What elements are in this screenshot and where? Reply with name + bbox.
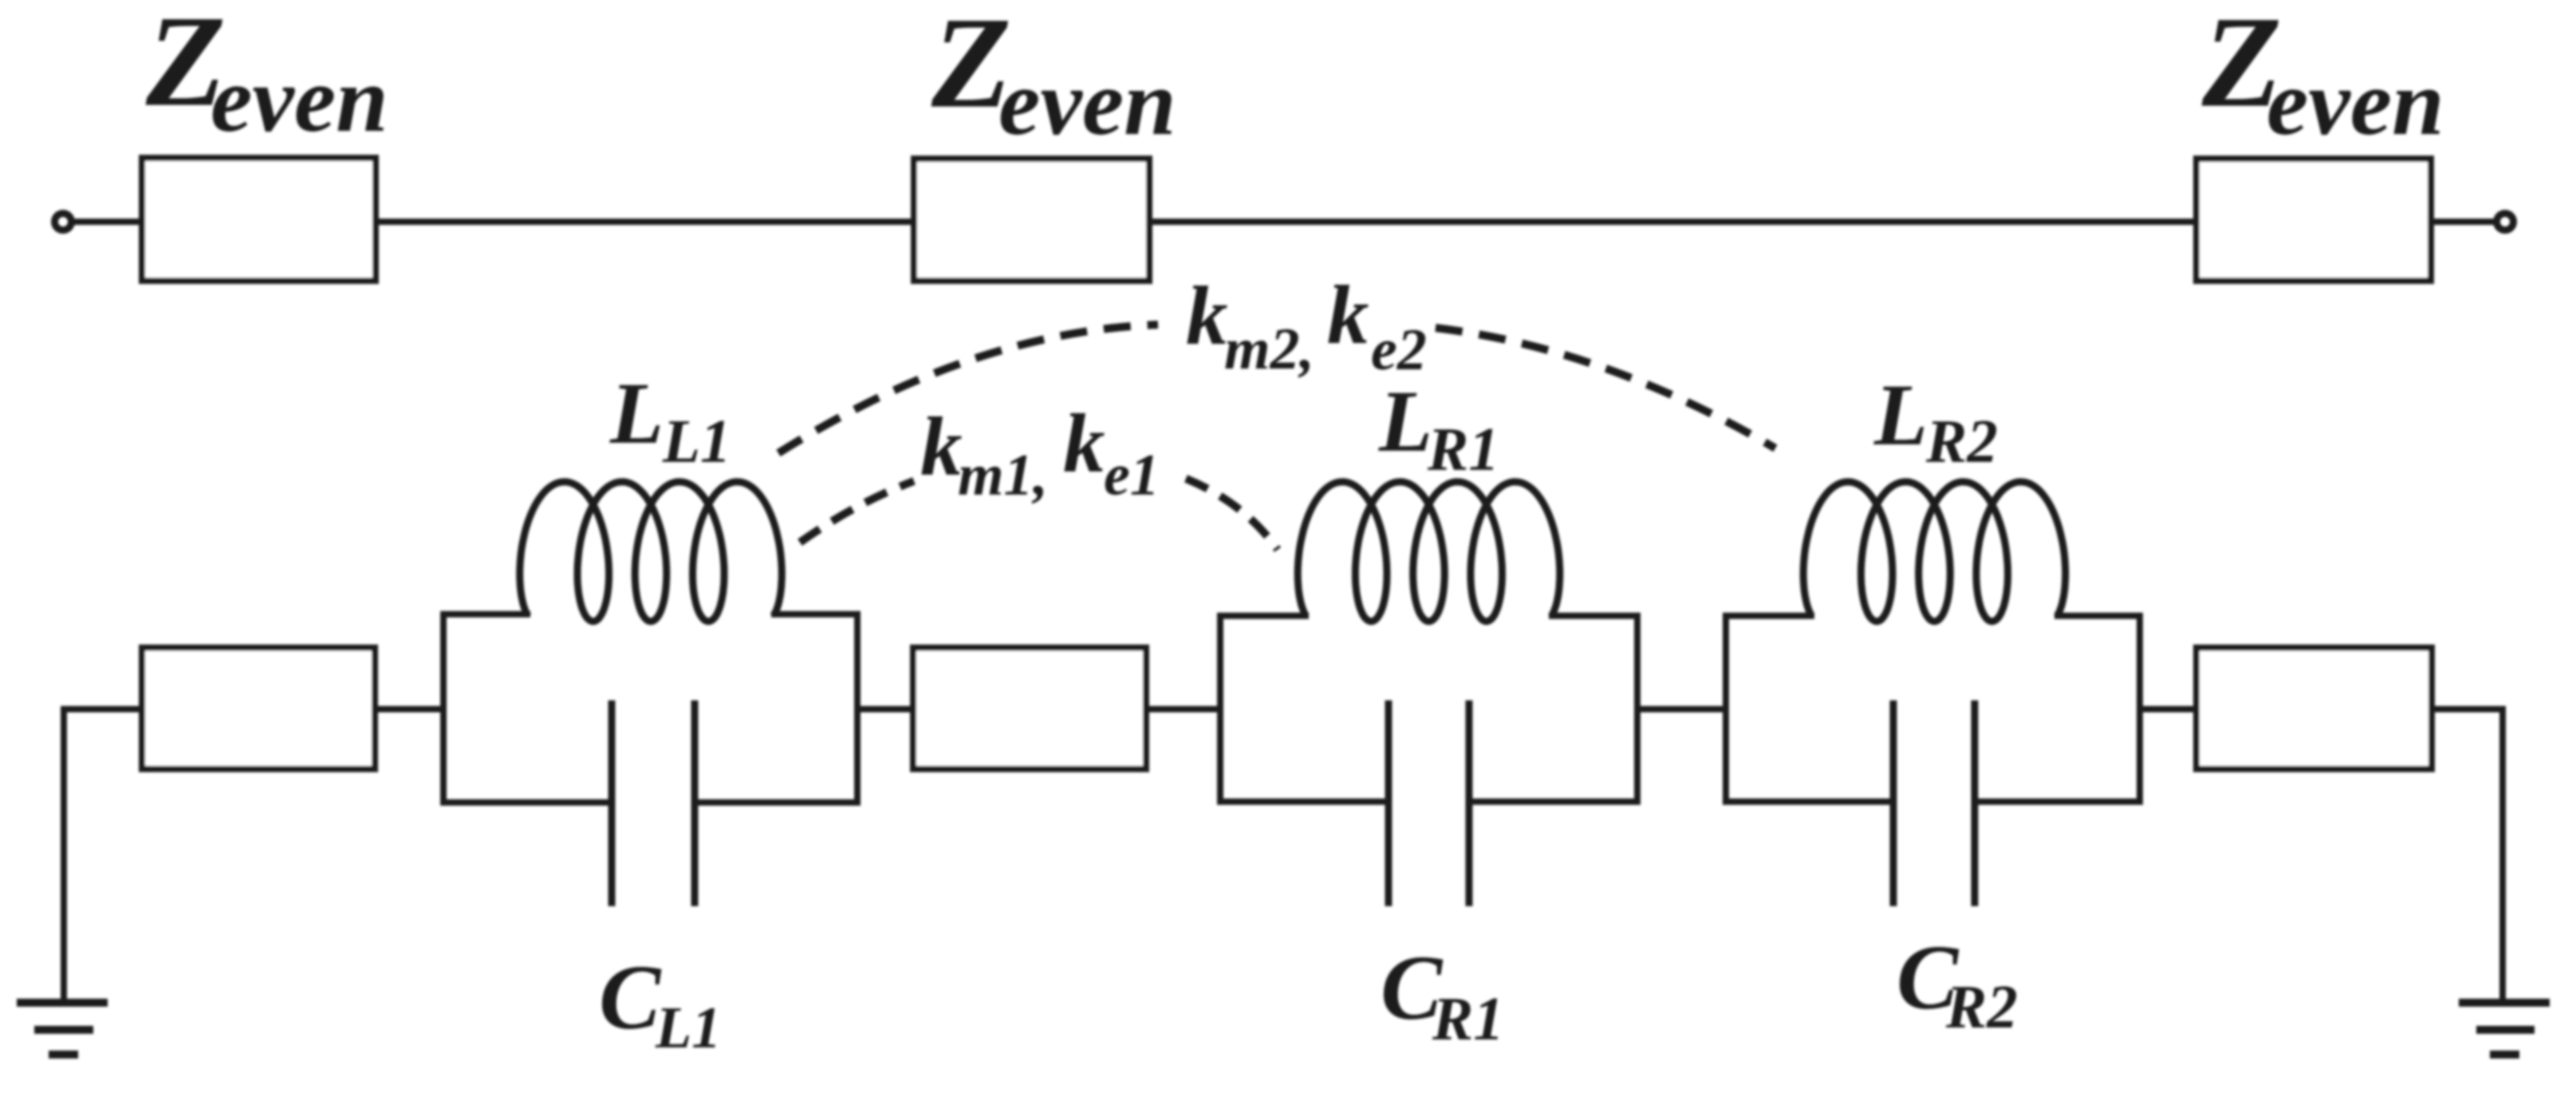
- wire: [375, 706, 443, 712]
- capacitor plates C_L1: [609, 700, 616, 906]
- inductor coil L_L1: [520, 482, 782, 621]
- wire: [2431, 219, 2494, 225]
- transmission line Z_even (left box): [142, 158, 376, 281]
- transmission line Z_even (middle box): [914, 159, 1149, 281]
- resonator box 2 (L_R1/C_R1) right outline: [1469, 616, 1637, 802]
- wire: [1637, 706, 1726, 712]
- ground (left): [17, 1003, 108, 1055]
- inductor coil L_R2: [1803, 482, 2066, 621]
- resonator box 3 (L_R2/C_R2) left outline: [1726, 616, 1893, 802]
- resonator box 1 (L_L1/C_L1) right outline: [695, 614, 857, 802]
- admittance inverter box (bottom left): [142, 648, 375, 769]
- port P2 (right terminal): [2497, 214, 2514, 231]
- coupling k_m2,k_e2 dashed arc (left part): [778, 325, 1158, 453]
- inductor coil L_R1: [1298, 482, 1560, 621]
- wire: [376, 219, 914, 225]
- transmission line Z_even (right box): [2196, 159, 2431, 281]
- capacitor plates C_R2: [1890, 700, 1897, 906]
- resonator box 1 (L_L1/C_L1) left outline: [443, 614, 612, 802]
- wire: [857, 706, 913, 712]
- coupling k_m1,k_e1 dashed arc (left part): [800, 481, 914, 542]
- wire to left ground: [64, 709, 142, 1003]
- wire: [1149, 219, 2196, 225]
- wire: [72, 219, 142, 225]
- admittance inverter box (bottom middle): [913, 648, 1146, 769]
- admittance inverter box (bottom right): [2196, 648, 2432, 769]
- coupling k_m2,k_e2 dashed arc (right part): [1436, 328, 1775, 448]
- resonator box 3 (L_R2/C_R2) right outline: [1975, 616, 2140, 802]
- resonator box 2 (L_R1/C_R1) left outline: [1220, 616, 1388, 802]
- wire: [1146, 706, 1220, 712]
- coupling k_m1,k_e1 dashed arc (right part): [1186, 479, 1278, 550]
- wire to right ground: [2432, 709, 2503, 1003]
- ground (right): [2459, 1003, 2550, 1055]
- port P1 (left terminal): [55, 214, 72, 231]
- capacitor plates C_R1: [1385, 700, 1392, 906]
- wire: [2140, 706, 2196, 712]
